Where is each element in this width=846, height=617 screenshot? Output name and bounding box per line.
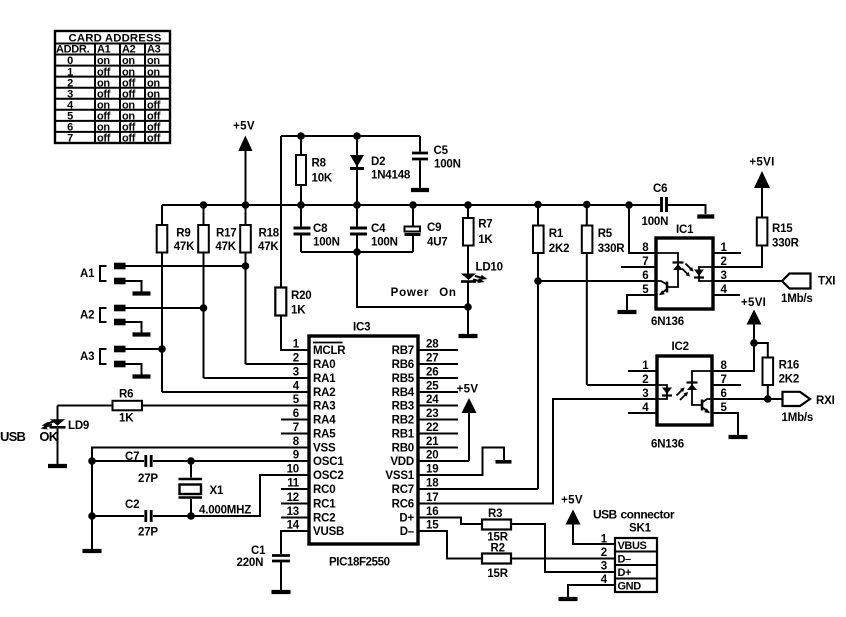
svg-text:X1: X1: [210, 485, 224, 497]
wire +5VI node to R16: [754, 343, 768, 358]
wire R20 to IC3 pin 1: [281, 316, 309, 351]
svg-text:2: 2: [601, 547, 607, 559]
svg-text:R3: R3: [488, 508, 502, 520]
capacitor C9 4U7 polarized: [405, 205, 448, 252]
svg-text:USB: USB: [0, 429, 25, 444]
junction LD10 / cap-rail: [464, 303, 472, 311]
svg-text:USB: USB: [593, 508, 617, 522]
IC2 internal input LED: [657, 385, 672, 399]
svg-text:R1: R1: [549, 228, 564, 240]
wire main +5V rail: [162, 204, 660, 206]
wire IC2 pin 6 to RXI: [712, 398, 783, 400]
wire cap rail to LD10 node: [357, 252, 468, 307]
transistor inside IC2: [702, 399, 712, 413]
svg-text:3: 3: [601, 561, 607, 573]
svg-text:47K: 47K: [174, 241, 195, 253]
svg-text:8: 8: [293, 436, 300, 448]
svg-text:A1: A1: [80, 268, 95, 280]
svg-text:R9: R9: [176, 228, 190, 240]
wire IC2 pin 1 stub: [628, 370, 657, 372]
wire SK1 GND to ground: [568, 585, 615, 597]
svg-text:VBUS: VBUS: [618, 540, 647, 552]
capacitor C8 100N: [294, 205, 340, 252]
svg-text:off: off: [122, 133, 136, 145]
svg-text:13: 13: [287, 506, 299, 518]
svg-text:C1: C1: [251, 545, 266, 557]
op-amp IC2 6N136 optocoupler: [651, 341, 712, 451]
junction IC1 pin8 drop: [625, 201, 633, 209]
junction +5V/R18 rail: [242, 201, 250, 209]
svg-text:GND: GND: [618, 581, 642, 593]
wire LD9 cathode to ground: [57, 428, 59, 464]
diode D2 1N4148: [350, 136, 411, 205]
wire IC3 NC stubs right (RB7-RB0): [419, 350, 458, 448]
junction R17 rail: [200, 201, 208, 209]
junction +5VI / IC2 pin8: [750, 339, 758, 347]
IC3 right pin numbers and names: [385, 339, 439, 539]
ground crystal circuit: [83, 549, 102, 553]
svg-text:C6: C6: [653, 183, 667, 195]
svg-text:19: 19: [426, 464, 438, 476]
junction A3/R9: [158, 345, 166, 353]
resistor R8: [296, 136, 333, 205]
junction X1 top: [187, 457, 195, 465]
svg-text:1N4148: 1N4148: [371, 170, 411, 182]
svg-text:A3: A3: [80, 351, 94, 363]
table CARD ADDRESS: [55, 31, 170, 145]
svg-text:RB4: RB4: [392, 387, 415, 399]
junction R16 / RXI: [764, 395, 772, 403]
capacitor C2 27P: [125, 499, 158, 539]
svg-text:10: 10: [287, 464, 299, 476]
junction C4 bottom: [353, 248, 361, 256]
svg-text:VSS1: VSS1: [385, 470, 414, 482]
svg-text:4.000MHZ: 4.000MHZ: [199, 505, 251, 517]
svg-text:IC2: IC2: [672, 341, 689, 353]
IC1 light arrows: [682, 264, 694, 277]
svg-text:SK1: SK1: [629, 523, 652, 535]
svg-text:+5V: +5V: [233, 121, 255, 133]
svg-text:10K: 10K: [312, 173, 333, 185]
wire IC1 pin 4 stub: [713, 294, 740, 296]
svg-text:off: off: [97, 133, 111, 145]
capacitor C4 100N: [350, 205, 398, 252]
wire A1 top pin to pullup: [126, 265, 246, 267]
svg-text:18: 18: [426, 478, 439, 490]
svg-text:A2: A2: [122, 44, 136, 56]
svg-text:16: 16: [426, 506, 438, 518]
op-amp IC1 6N136 optocoupler: [651, 224, 713, 328]
wire C2 line to OSC2: [92, 475, 309, 516]
svg-text:RB2: RB2: [392, 415, 414, 427]
connector A1: [80, 263, 126, 285]
wire R1 node to IC1 pin 6: [538, 280, 656, 282]
svg-text:On: On: [439, 287, 457, 299]
svg-text:RC6: RC6: [392, 499, 414, 511]
ground below C5: [411, 188, 429, 192]
svg-text:ADDR.: ADDR.: [56, 44, 90, 56]
svg-text:330R: 330R: [598, 243, 626, 255]
svg-text:100N: 100N: [313, 236, 340, 248]
svg-text:IC3: IC3: [353, 322, 370, 334]
svg-text:27P: 27P: [138, 473, 158, 485]
resistor R9: [157, 205, 309, 392]
svg-text:R6: R6: [119, 389, 133, 401]
svg-text:+5VI: +5VI: [749, 157, 774, 169]
connector A3: [80, 346, 126, 368]
svg-text:RA0: RA0: [313, 359, 335, 371]
svg-text:LD10: LD10: [476, 262, 503, 274]
resistor R20: [275, 288, 311, 317]
svg-text:330R: 330R: [772, 238, 800, 250]
junction C9 rail: [409, 201, 417, 209]
resistor R5: [582, 205, 657, 385]
svg-text:LD9: LD9: [68, 420, 89, 432]
junction R8 top rail: [297, 132, 305, 140]
svg-text:100N: 100N: [434, 159, 461, 171]
svg-text:OSC2: OSC2: [313, 470, 344, 482]
svg-text:R15: R15: [772, 223, 793, 235]
op-amp IC3 PIC18F2550 microcontroller: [309, 322, 418, 569]
svg-text:R7: R7: [478, 219, 492, 231]
svg-text:2K2: 2K2: [779, 373, 800, 385]
svg-text:14: 14: [287, 520, 300, 532]
svg-text:220N: 220N: [237, 557, 264, 569]
svg-text:RA4: RA4: [313, 415, 336, 427]
svg-text:RXI: RXI: [816, 395, 835, 407]
svg-text:+5VI: +5VI: [741, 297, 766, 309]
svg-text:5: 5: [293, 394, 300, 406]
svg-text:6: 6: [642, 270, 648, 282]
wire VUSB pin14 to C1: [281, 531, 309, 554]
svg-text:1: 1: [601, 534, 608, 546]
svg-text:1K: 1K: [291, 305, 306, 317]
svg-text:C4: C4: [371, 223, 386, 235]
junction R1 rail: [534, 201, 542, 209]
svg-text:connector: connector: [621, 508, 675, 522]
svg-text:7: 7: [67, 133, 73, 145]
junction R7 rail: [464, 201, 472, 209]
svg-text:1K: 1K: [478, 234, 493, 246]
svg-text:IC1: IC1: [676, 224, 694, 236]
svg-text:RC1: RC1: [313, 499, 336, 511]
svg-text:R17: R17: [216, 228, 237, 240]
junction D2 rail: [353, 201, 361, 209]
svg-text:A2: A2: [80, 310, 94, 322]
wire A3 bottom pin to ground: [126, 364, 142, 375]
svg-text:R5: R5: [598, 228, 613, 240]
svg-text:2K2: 2K2: [549, 243, 570, 255]
power +5V supply arrow (main rail): [233, 121, 255, 206]
LED LD10 Power On: [461, 262, 503, 284]
wire IC2 pin 4 stub: [628, 412, 657, 414]
connector RXI input: [782, 392, 835, 424]
svg-text:D+: D+: [399, 513, 414, 525]
capacitor C5 100N: [412, 136, 461, 188]
wire IC1 pin 1 stub: [713, 252, 741, 254]
svg-text:3: 3: [293, 367, 299, 379]
svg-text:+5V: +5V: [457, 384, 479, 396]
wire IC2 pin 8 to +5VI: [712, 343, 754, 371]
svg-text:15R: 15R: [487, 568, 508, 580]
wire IC2 pin 3 to RC6: [419, 399, 657, 504]
svg-text:C5: C5: [434, 145, 449, 157]
ground IC2 pin 5: [729, 435, 748, 439]
svg-text:R16: R16: [779, 359, 800, 371]
svg-text:off: off: [147, 133, 161, 145]
svg-text:100N: 100N: [371, 236, 398, 248]
svg-text:1: 1: [293, 339, 300, 351]
wire IC1 pin 5 to ground: [627, 295, 656, 310]
svg-text:A1: A1: [97, 44, 111, 56]
svg-text:21: 21: [426, 436, 439, 448]
svg-text:9: 9: [293, 450, 299, 462]
wire IC1 pin 3 to TXI: [713, 280, 783, 282]
svg-text:6N136: 6N136: [651, 316, 684, 328]
wire C7 line to OSC1: [92, 460, 309, 462]
svg-text:C2: C2: [125, 499, 139, 511]
svg-text:6N136: 6N136: [651, 439, 684, 451]
svg-text:1Mb/s: 1Mb/s: [782, 412, 814, 424]
svg-text:15: 15: [426, 520, 439, 532]
junction A1/R18: [242, 262, 250, 270]
ground SK1: [559, 597, 578, 601]
svg-text:C9: C9: [427, 222, 441, 234]
ground VSS1 (pin 19): [419, 448, 512, 476]
svg-text:25: 25: [426, 381, 439, 393]
power +5V arrow (VDD): [419, 384, 478, 462]
IC3 left pin numbers and names: [287, 339, 347, 539]
svg-text:OSC1: OSC1: [313, 456, 344, 468]
IC2 light arrows: [677, 387, 689, 400]
power +5VI arrow (IC2): [741, 297, 766, 343]
resistor R6: [58, 389, 310, 425]
wire IC3 NC stubs left (RA4 RA5 RC0 RC1 RC2): [281, 420, 309, 518]
resistor R1: [419, 205, 569, 489]
capacitor C7 27P: [125, 451, 158, 485]
junction R5 rail: [583, 201, 591, 209]
svg-text:D2: D2: [371, 156, 385, 168]
junction D2 top rail: [353, 132, 361, 140]
svg-text:1Mb/s: 1Mb/s: [781, 293, 813, 305]
svg-text:+5V: +5V: [561, 495, 583, 507]
svg-text:RC7: RC7: [392, 484, 414, 496]
svg-text:8: 8: [642, 242, 649, 254]
svg-text:PIC18F2550: PIC18F2550: [329, 557, 390, 569]
IC2 pin numbers: [642, 360, 727, 414]
IC1 internal input LED: [694, 267, 713, 281]
svg-text:2: 2: [642, 374, 648, 386]
svg-text:11: 11: [287, 478, 300, 490]
svg-text:7: 7: [293, 422, 299, 434]
wire MCLR top rail: [281, 135, 420, 137]
svg-text:23: 23: [426, 408, 438, 420]
svg-text:D–: D–: [618, 554, 632, 566]
svg-text:D–: D–: [400, 526, 415, 538]
svg-text:27: 27: [426, 353, 438, 365]
svg-text:100N: 100N: [642, 216, 669, 228]
svg-text:R20: R20: [291, 290, 312, 302]
svg-text:47K: 47K: [258, 241, 279, 253]
capacitor C1 220N: [237, 545, 291, 590]
svg-text:R8: R8: [312, 158, 327, 170]
ground A3: [133, 374, 151, 378]
svg-text:RA3: RA3: [313, 401, 335, 413]
svg-text:4: 4: [293, 381, 300, 393]
svg-text:MCLR: MCLR: [313, 345, 346, 357]
svg-text:TXI: TXI: [818, 276, 835, 288]
power +5VI arrow (R15): [749, 157, 774, 218]
resistor R3 15R: [419, 508, 615, 572]
wire A1 bottom pin to ground: [126, 281, 142, 292]
ground IC1 pin 5: [618, 310, 637, 314]
resistor R15: [757, 218, 800, 250]
wire LD10 cathode to ground: [467, 282, 469, 334]
svg-text:C7: C7: [125, 451, 139, 463]
crystal X1 4.000MHZ: [179, 461, 252, 517]
svg-text:26: 26: [426, 367, 438, 379]
svg-text:RB1: RB1: [392, 429, 415, 441]
svg-text:RC2: RC2: [313, 513, 335, 525]
svg-text:RA5: RA5: [313, 429, 336, 441]
svg-text:1K: 1K: [119, 413, 134, 425]
wire IC1 pin 7 stub: [621, 266, 656, 268]
svg-text:R2: R2: [491, 543, 505, 555]
svg-text:Power: Power: [391, 287, 430, 299]
svg-text:OK: OK: [39, 429, 58, 444]
IC2 internal photodiode and base path: [687, 371, 713, 405]
connector SK1 USB connector: [593, 508, 675, 593]
ground LD9: [48, 464, 67, 468]
svg-text:6: 6: [293, 408, 299, 420]
junction X1 bottom: [187, 512, 195, 520]
svg-text:47K: 47K: [215, 241, 236, 253]
connector TXI output: [781, 274, 835, 306]
junction C2 left: [88, 512, 96, 520]
svg-text:27P: 27P: [138, 527, 158, 539]
wire A2 bottom pin to ground: [126, 322, 142, 333]
wire IC2 pin 5 to ground: [712, 413, 738, 435]
wire rail to IC1 pin 8: [629, 205, 656, 253]
svg-text:24: 24: [426, 394, 439, 406]
wire A2 top pin to pullup: [126, 307, 204, 309]
svg-text:RB7: RB7: [392, 345, 414, 357]
wire IC1 pin 2 to R15: [713, 246, 762, 268]
svg-text:VUSB: VUSB: [313, 526, 344, 538]
ground A2: [133, 332, 151, 336]
svg-text:28: 28: [426, 339, 439, 351]
wire MCLR vertical to R20: [280, 136, 282, 288]
wire VSS pin8 to ground rail: [92, 448, 309, 550]
resistor R18: [240, 205, 309, 364]
svg-text:17: 17: [426, 492, 438, 504]
svg-text:RB6: RB6: [392, 359, 414, 371]
svg-text:RA1: RA1: [313, 373, 336, 385]
wire IC2 pin 7 stub: [712, 384, 741, 386]
svg-text:D+: D+: [618, 567, 632, 579]
resistor R2 15R: [419, 531, 615, 580]
junction R8 rail: [297, 201, 305, 209]
transistor inside IC1: [656, 281, 667, 295]
svg-text:R18: R18: [259, 228, 280, 240]
svg-text:4U7: 4U7: [427, 236, 448, 248]
junction A2/R17: [200, 304, 208, 312]
svg-text:C8: C8: [313, 223, 328, 235]
svg-text:VDD: VDD: [390, 456, 414, 468]
IC1 pin numbers: [642, 242, 727, 296]
svg-text:12: 12: [287, 492, 299, 504]
svg-text:RB0: RB0: [392, 443, 414, 455]
junction C7 left: [88, 457, 96, 465]
svg-text:RB3: RB3: [392, 401, 414, 413]
svg-text:RB5: RB5: [392, 373, 415, 385]
power +5V arrow (VBUS): [561, 495, 615, 545]
junction R1 / IC1 pin6: [534, 277, 542, 285]
LED LD9: [41, 419, 90, 432]
connector A2: [80, 305, 126, 326]
svg-text:2: 2: [293, 353, 299, 365]
ground C1: [272, 590, 291, 594]
wire A3 top pin to pullup: [126, 348, 163, 350]
svg-text:A3: A3: [147, 44, 161, 56]
svg-text:RA2: RA2: [313, 387, 335, 399]
svg-text:20: 20: [426, 450, 438, 462]
resistor R17: [198, 205, 309, 378]
ground C6: [697, 214, 714, 218]
IC1 internal photodiode and base path: [656, 253, 684, 287]
resistor R7: [463, 205, 493, 274]
svg-text:22: 22: [426, 422, 438, 434]
capacitor C6 100N: [642, 183, 706, 228]
wire capacitor ground rail: [301, 251, 413, 253]
svg-text:VSS: VSS: [313, 443, 336, 455]
ground A1: [133, 291, 151, 295]
resistor R16: [763, 358, 800, 400]
svg-text:RC0: RC0: [313, 484, 335, 496]
ground LD10: [459, 334, 478, 338]
